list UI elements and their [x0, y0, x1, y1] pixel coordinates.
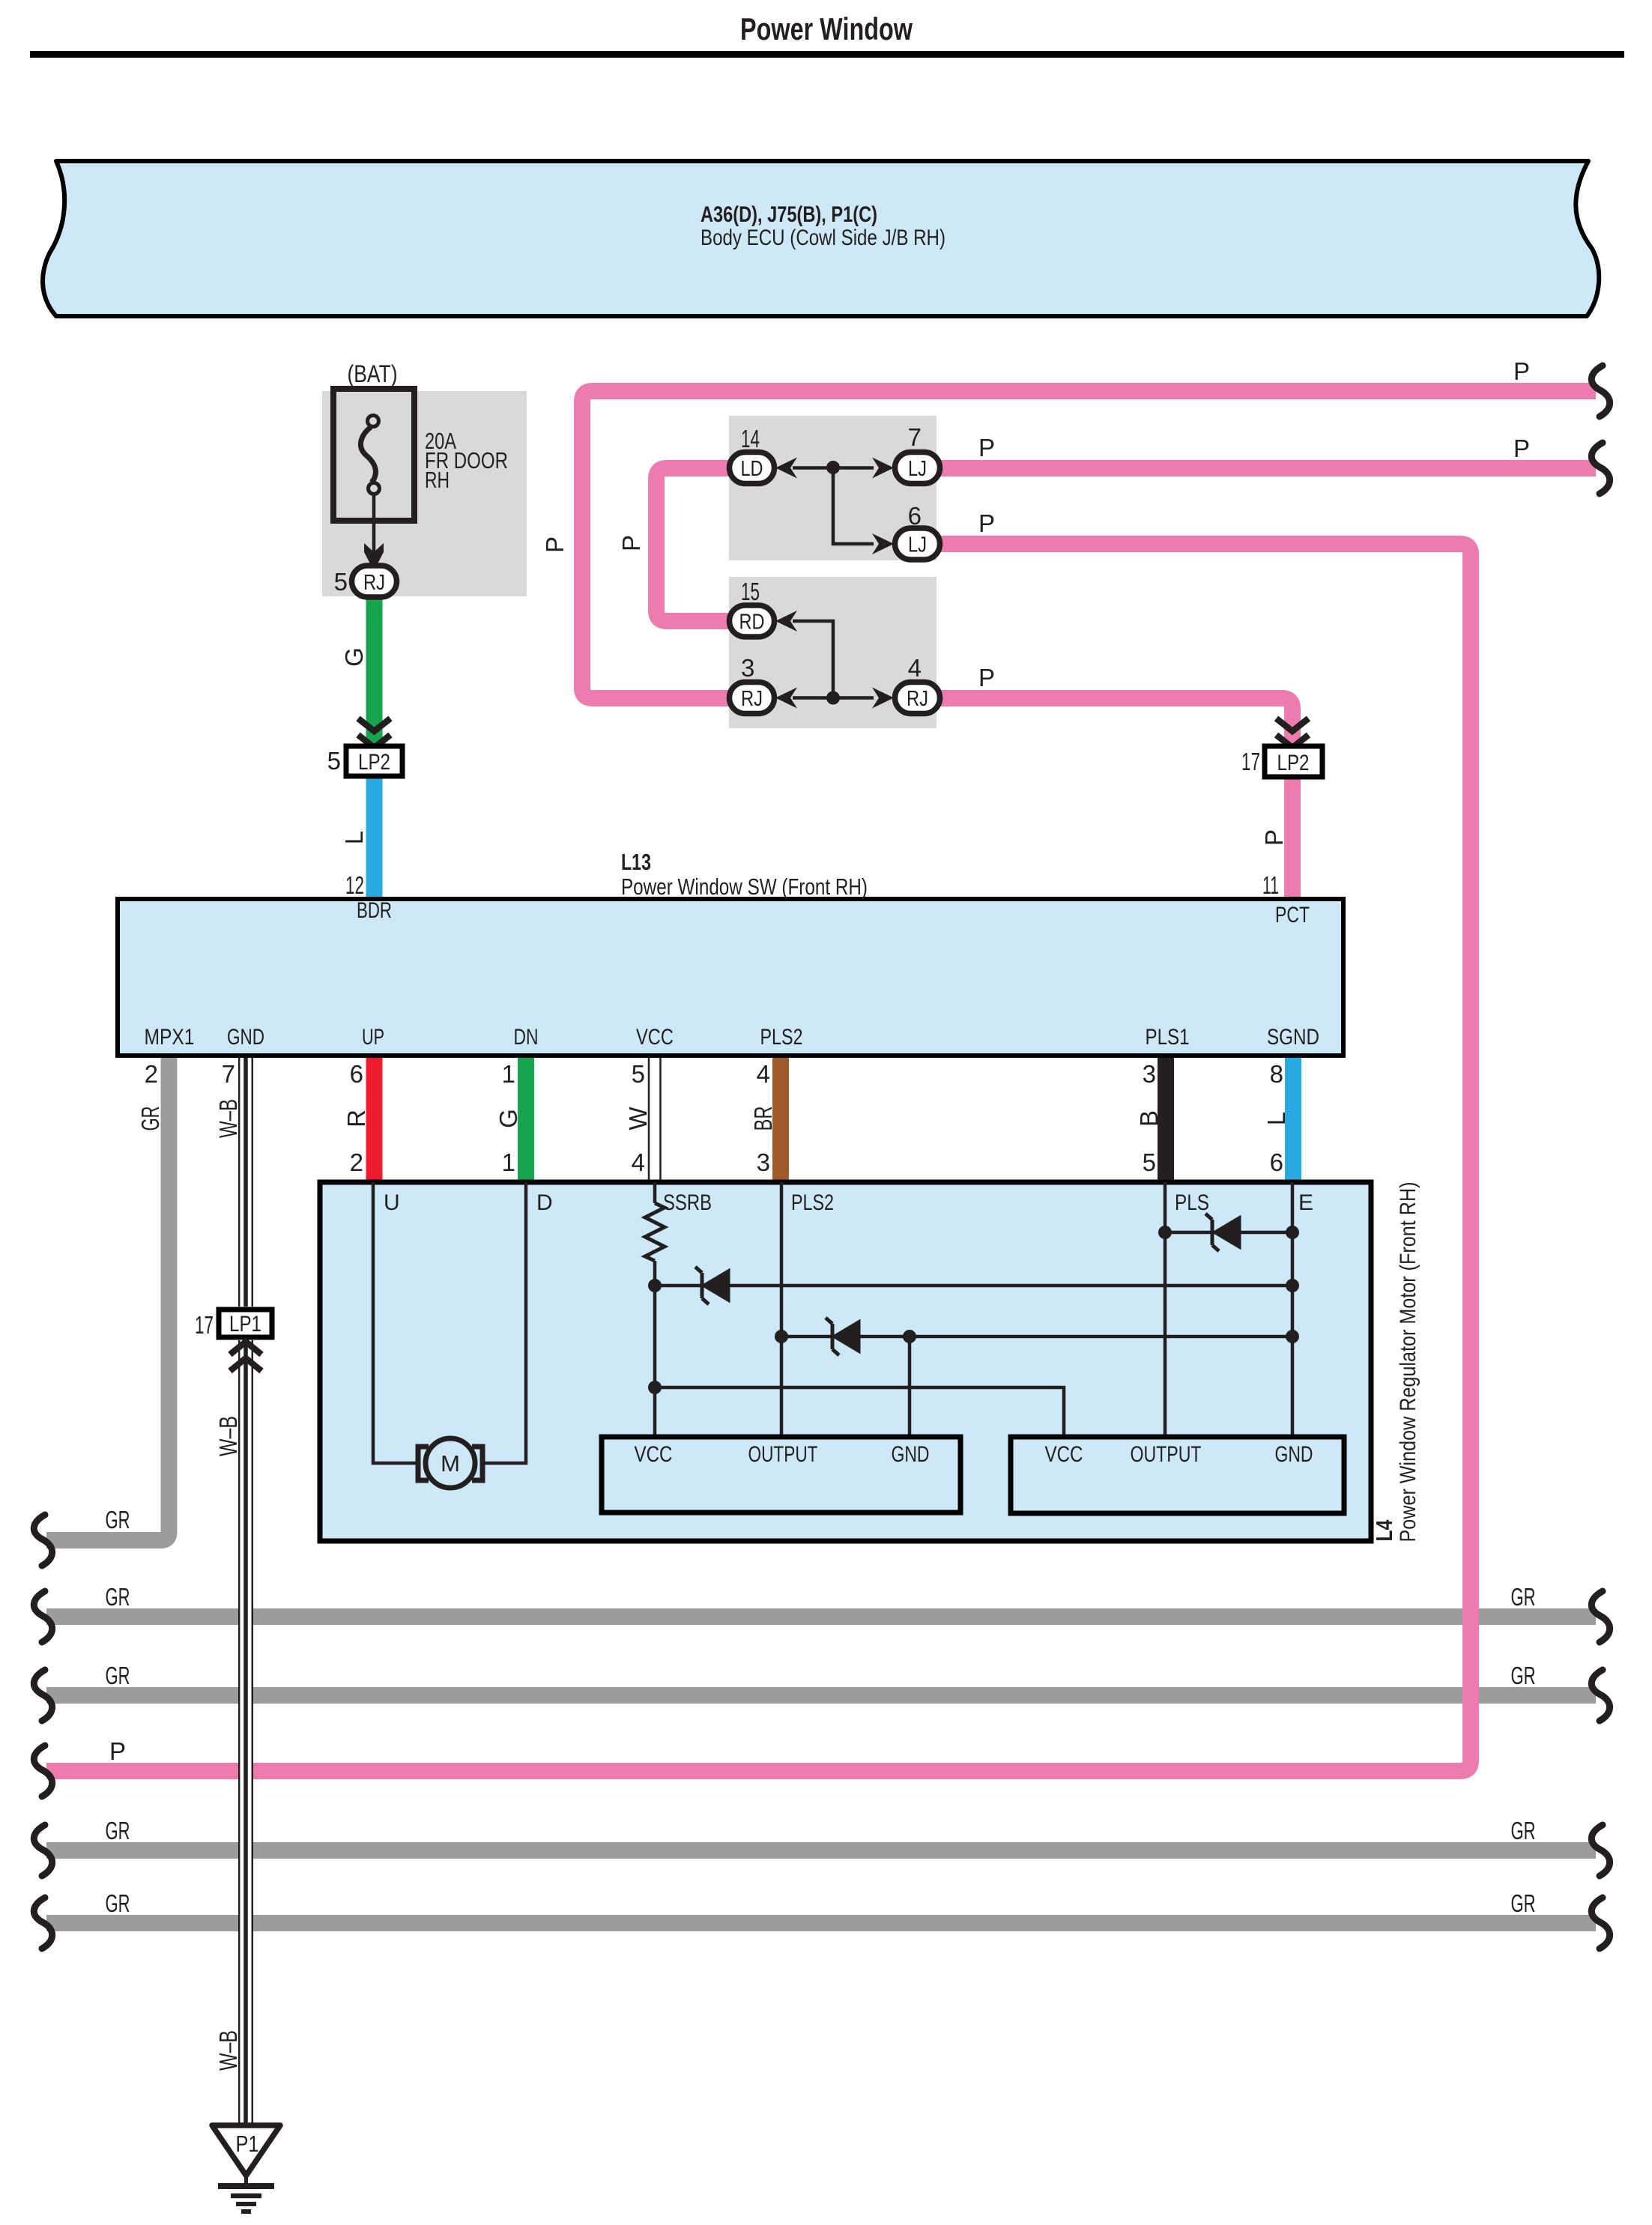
svg-text:7: 7 [908, 423, 922, 451]
svg-text:RJ: RJ [907, 687, 928, 711]
svg-text:PLS1: PLS1 [1146, 1025, 1190, 1050]
svg-text:G: G [340, 647, 368, 667]
svg-text:1: 1 [502, 1060, 515, 1088]
svg-text:1: 1 [502, 1148, 515, 1176]
svg-text:7: 7 [222, 1060, 235, 1088]
svg-text:B: B [1135, 1110, 1163, 1127]
svg-text:PCT: PCT [1275, 903, 1310, 927]
svg-text:VCC: VCC [1045, 1442, 1083, 1467]
svg-text:GND: GND [227, 1025, 264, 1050]
svg-text:RJ: RJ [363, 571, 385, 595]
svg-text:GR: GR [106, 1817, 130, 1844]
svg-text:P: P [1513, 435, 1530, 462]
svg-text:5: 5 [327, 747, 341, 775]
svg-text:G: G [494, 1109, 522, 1128]
svg-text:6: 6 [908, 502, 922, 530]
svg-text:A36(D), J75(B), P1(C): A36(D), J75(B), P1(C) [701, 202, 877, 227]
svg-text:W–B: W–B [214, 1416, 242, 1456]
svg-text:U: U [384, 1190, 400, 1215]
svg-text:14: 14 [741, 425, 760, 452]
svg-text:P1: P1 [236, 2131, 259, 2157]
svg-text:LJ: LJ [908, 457, 927, 481]
svg-text:L13: L13 [621, 849, 651, 875]
svg-text:3: 3 [757, 1148, 770, 1176]
svg-text:DN: DN [514, 1025, 539, 1050]
svg-text:6: 6 [1270, 1148, 1283, 1176]
svg-text:4: 4 [632, 1148, 645, 1176]
svg-text:W: W [624, 1107, 652, 1130]
svg-text:LP2: LP2 [1277, 751, 1310, 775]
svg-text:RH: RH [425, 467, 450, 493]
svg-text:UP: UP [362, 1025, 384, 1050]
svg-text:15: 15 [741, 578, 760, 605]
svg-text:Power Window Regulator Motor (: Power Window Regulator Motor (Front RH) [1396, 1182, 1420, 1543]
svg-text:P: P [617, 535, 645, 551]
svg-text:OUTPUT: OUTPUT [748, 1442, 818, 1467]
svg-text:LD: LD [741, 457, 763, 481]
svg-text:P: P [1260, 829, 1288, 846]
svg-text:5: 5 [1143, 1148, 1156, 1176]
svg-text:GND: GND [892, 1442, 930, 1467]
svg-text:12: 12 [345, 871, 364, 899]
svg-text:L: L [340, 831, 368, 844]
svg-text:4: 4 [757, 1060, 770, 1088]
svg-text:P: P [978, 664, 995, 691]
svg-text:17: 17 [1241, 748, 1260, 775]
svg-text:LJ: LJ [908, 533, 927, 557]
svg-text:(BAT): (BAT) [348, 360, 398, 387]
svg-text:LP2: LP2 [358, 750, 390, 775]
svg-text:P: P [109, 1737, 126, 1765]
svg-text:L: L [1262, 1112, 1290, 1125]
svg-text:E: E [1298, 1190, 1313, 1215]
svg-text:RJ: RJ [741, 687, 763, 711]
svg-text:L4: L4 [1371, 1519, 1397, 1542]
svg-text:2: 2 [145, 1060, 158, 1088]
svg-text:MPX1: MPX1 [145, 1025, 195, 1050]
svg-text:2: 2 [350, 1148, 363, 1176]
svg-text:6: 6 [350, 1060, 363, 1088]
svg-text:Power Window: Power Window [740, 11, 913, 46]
svg-text:P: P [978, 509, 995, 537]
svg-text:17: 17 [195, 1311, 214, 1339]
svg-text:P: P [1513, 357, 1530, 385]
svg-text:Body ECU (Cowl Side J/B RH): Body ECU (Cowl Side J/B RH) [701, 225, 945, 250]
svg-text:8: 8 [1270, 1060, 1283, 1088]
svg-text:VCC: VCC [636, 1025, 674, 1050]
svg-text:PLS: PLS [1175, 1190, 1209, 1215]
svg-text:LP1: LP1 [229, 1312, 261, 1336]
svg-text:3: 3 [741, 654, 754, 682]
svg-text:GR: GR [1511, 1889, 1536, 1917]
svg-text:SSRB: SSRB [663, 1190, 712, 1215]
svg-text:Power Window SW (Front RH): Power Window SW (Front RH) [621, 874, 868, 900]
svg-text:D: D [536, 1190, 553, 1215]
svg-text:P: P [541, 536, 569, 553]
svg-text:3: 3 [1143, 1060, 1156, 1088]
svg-text:VCC: VCC [635, 1442, 673, 1467]
svg-text:BR: BR [749, 1107, 777, 1131]
svg-text:GR: GR [106, 1506, 130, 1534]
svg-text:GND: GND [1275, 1442, 1313, 1467]
svg-text:M: M [441, 1450, 460, 1477]
svg-text:GR: GR [106, 1889, 130, 1917]
svg-text:GR: GR [106, 1583, 130, 1611]
svg-text:RD: RD [739, 611, 765, 635]
svg-text:4: 4 [908, 654, 922, 682]
svg-text:11: 11 [1262, 871, 1279, 899]
svg-text:R: R [342, 1110, 370, 1127]
svg-text:W–B: W–B [214, 2030, 242, 2071]
svg-text:GR: GR [1511, 1662, 1536, 1689]
svg-text:SGND: SGND [1267, 1025, 1319, 1050]
svg-text:P: P [978, 434, 995, 461]
svg-text:GR: GR [106, 1662, 130, 1689]
svg-text:OUTPUT: OUTPUT [1131, 1442, 1202, 1467]
svg-text:GR: GR [1511, 1817, 1536, 1844]
svg-text:PLS2: PLS2 [791, 1190, 834, 1215]
svg-text:W–B: W–B [214, 1099, 242, 1138]
svg-text:GR: GR [1511, 1583, 1536, 1611]
svg-text:BDR: BDR [357, 898, 392, 923]
svg-text:PLS2: PLS2 [760, 1025, 803, 1050]
svg-text:GR: GR [136, 1107, 164, 1131]
svg-text:5: 5 [334, 568, 348, 596]
svg-text:5: 5 [632, 1060, 645, 1088]
